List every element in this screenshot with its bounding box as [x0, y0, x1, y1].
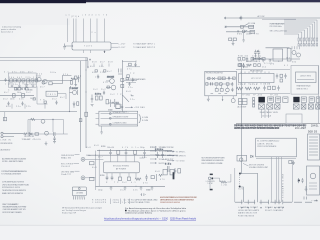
svg-text:100n: 100n — [10, 98, 15, 100]
rail top parts — [239, 63, 245, 68]
terminal strip box TB1 — [99, 111, 138, 126]
connector pin column — [253, 98, 255, 107]
left rail C — [95, 151, 97, 191]
label row 3 with stub — [61, 171, 80, 176]
junction — [95, 155, 96, 156]
IC package drawing U3 (power IC) — [72, 187, 86, 200]
branch capacitor C18 — [132, 78, 134, 82]
cap C8 — [4, 78, 6, 82]
output stub arrow 1 — [167, 151, 186, 153]
dark spec right column — [295, 125, 319, 133]
junction — [144, 155, 145, 156]
labels above parts — [107, 147, 139, 149]
junction — [15, 80, 16, 81]
svg-text:100p: 100p — [24, 84, 29, 86]
svg-text:6k8: 6k8 — [126, 91, 131, 93]
svg-text:33k: 33k — [142, 157, 147, 159]
svg-text:(P1)b: (P1)b — [71, 16, 79, 18]
fan wire 5 — [284, 28, 307, 38]
svg-text:EL CONTROL AMP/204-12: EL CONTROL AMP/204-12 — [257, 140, 279, 143]
selector lower wire — [240, 187, 244, 202]
svg-text:22k: 22k — [26, 77, 31, 79]
wire — [93, 63, 95, 66]
sub row C res2 — [220, 89, 223, 92]
cap row part c — [272, 86, 275, 89]
svg-text:SPEAKER LEFT +: SPEAKER LEFT + — [113, 111, 129, 114]
resistor R25 below — [128, 177, 131, 181]
svg-text:1N4148: 1N4148 — [146, 190, 151, 192]
node dot U1 in — [72, 45, 73, 46]
svg-text:22k: 22k — [133, 190, 138, 192]
U10 pins top — [241, 72, 269, 74]
svg-text:MUTING LINE: MUTING LINE — [159, 155, 173, 157]
transistor Q5 — [106, 85, 116, 90]
sub pin drop left — [207, 96, 209, 99]
svg-text:UNIT 4 INDUSTRIAL ESTATE ROAD: UNIT 4 INDUSTRIAL ESTATE ROAD — [2, 183, 30, 186]
svg-text:204 EL: 204 EL — [311, 125, 319, 127]
rail A series part — [79, 119, 82, 122]
bottom tick 1 — [241, 200, 243, 204]
svg-text:LM317 REG: LM317 REG — [300, 76, 312, 78]
resistor array row — [298, 38, 318, 41]
brace right of TB1 — [139, 115, 141, 123]
side vertical wire — [234, 168, 236, 202]
svg-text:J201 A-B: J201 A-B — [262, 115, 272, 118]
table separator a — [110, 199, 112, 204]
cap bar dark top — [210, 174, 213, 176]
mains terminal L — [224, 17, 225, 19]
transistor Q3 group — [70, 88, 79, 95]
bus vertical 3 — [278, 157, 280, 202]
svg-text:2k2: 2k2 — [122, 182, 127, 184]
second row part a — [238, 64, 241, 67]
svg-text:LAMP: LAMP — [246, 33, 253, 36]
ground G5 — [124, 186, 127, 190]
svg-text:2.2u: 2.2u — [130, 99, 135, 101]
electrolytic C30 — [254, 50, 258, 58]
svg-text:47k LOG: 47k LOG — [33, 139, 42, 141]
TB1 row 2 wire — [101, 117, 138, 119]
bottom tick 4 — [260, 200, 262, 204]
svg-text:PROTECTOR UNIT PCB: PROTECTOR UNIT PCB — [206, 73, 224, 75]
top row part b — [242, 58, 245, 61]
ground G10 — [269, 59, 272, 62]
TB1 row 1 terminal — [109, 113, 111, 115]
left rail D — [98, 151, 100, 187]
TB1 ground drop — [101, 126, 103, 132]
top row part d — [251, 58, 254, 61]
cap C6 — [54, 132, 56, 136]
output stub arrow 3 — [167, 160, 185, 162]
top scan bar left thick — [0, 0, 86, 3]
svg-text:AMPL 204 AS THAT SHOWN RARE-20: AMPL 204 AS THAT SHOWN RARE-204 — [234, 127, 280, 130]
sub row A res — [233, 77, 236, 79]
long node wire — [0, 111, 77, 113]
svg-text:47u: 47u — [12, 72, 17, 74]
psu mid wire — [266, 47, 290, 49]
ground G2 — [45, 142, 48, 146]
svg-text:ELECTRO AXIAL TYPES: ELECTRO AXIAL TYPES — [131, 201, 151, 204]
svg-text:MAINS SELECTOR: MAINS SELECTOR — [238, 212, 258, 215]
svg-text:47u: 47u — [103, 82, 108, 84]
transistor Q21 — [297, 53, 301, 57]
svg-text:508 03: 508 03 — [308, 129, 318, 133]
wire — [101, 63, 103, 66]
switch S2 diagonal — [244, 24, 248, 26]
switch note text — [202, 158, 226, 165]
svg-text:BC556: BC556 — [100, 175, 105, 177]
capacitor — [55, 101, 57, 105]
sp terminal marks — [304, 197, 307, 200]
cap row part d — [277, 86, 279, 91]
fan wire 2 — [284, 22, 315, 38]
stub to power amp board — [124, 80, 137, 82]
svg-text:20mA TYP: 20mA TYP — [61, 173, 72, 176]
svg-text:56k: 56k — [99, 66, 104, 68]
branch wire upper — [127, 66, 141, 68]
switch S1 — [244, 30, 248, 32]
svg-text:2.2u: 2.2u — [16, 106, 21, 108]
ground G4 — [110, 186, 113, 190]
cap C10 above — [109, 149, 112, 155]
bottom caption mid — [265, 206, 285, 212]
zobel caps right — [155, 149, 164, 158]
motor M1 — [208, 177, 211, 180]
table separator b — [119, 199, 121, 204]
stub row 1 — [150, 146, 174, 149]
svg-text:6k8: 6k8 — [94, 145, 99, 147]
brace label — [142, 117, 149, 122]
svg-text:PRINT. B2 INTERFACE: PRINT. B2 INTERFACE — [257, 145, 277, 148]
pin wires up from U2 — [111, 154, 145, 162]
bridge diode D21 — [259, 58, 261, 60]
svg-text:UPC1237: UPC1237 — [251, 78, 261, 80]
svg-text:470: 470 — [270, 64, 274, 66]
svg-text:CHECKED AGAINST UNIT S/N: CHECKED AGAINST UNIT S/N — [3, 208, 27, 211]
bus vertical 1 — [270, 157, 272, 202]
sub transistor Q11 — [226, 88, 230, 92]
relay coil box small — [286, 114, 302, 123]
bus drop arrow — [87, 61, 89, 67]
bottom long bus wire — [235, 201, 302, 203]
bridge diode D20 — [253, 58, 255, 60]
bias network parts — [42, 75, 72, 84]
svg-text:AF POWER: AF POWER — [116, 168, 127, 171]
wire out B — [111, 46, 118, 48]
RC cluster lower mid — [106, 99, 115, 107]
upper cluster parts — [113, 102, 124, 109]
svg-text:100n: 100n — [37, 76, 42, 78]
cap row part a — [263, 86, 265, 91]
mid parts between ICs — [276, 74, 287, 83]
svg-text:220u: 220u — [95, 94, 101, 96]
connector square row2-6 — [308, 104, 313, 109]
wire pin2 — [73, 19, 75, 43]
title block box — [256, 138, 297, 157]
cap C7 with ground — [53, 136, 56, 143]
wire — [24, 104, 26, 109]
footer text block left — [3, 203, 28, 214]
svg-text:2.2u: 2.2u — [13, 84, 18, 86]
fan wire 3 — [284, 24, 312, 38]
junction — [99, 150, 100, 151]
cap C9 — [16, 88, 18, 90]
pre-driver box — [116, 104, 120, 109]
switch unit small box — [237, 155, 247, 161]
connector square row1-5 black — [293, 97, 299, 103]
svg-text:4k7: 4k7 — [60, 97, 65, 99]
sub row B res2 — [226, 83, 229, 85]
sub row A box2 — [218, 77, 221, 80]
svg-text:REAR PANEL VIEW: REAR PANEL VIEW — [260, 111, 278, 114]
svg-text:-- 4: -- 4 — [311, 199, 318, 202]
svg-text:1k2: 1k2 — [262, 66, 266, 68]
resistor R26 zigzag — [135, 178, 141, 180]
series diode D30 — [251, 155, 253, 157]
input resistor R21 — [89, 177, 94, 180]
svg-text:TO GND: TO GND — [176, 160, 186, 162]
capacitor — [7, 102, 9, 106]
svg-text:TO MAIN AMP INPUT L: TO MAIN AMP INPUT L — [133, 42, 155, 45]
series box on rail B — [121, 84, 124, 87]
cap C16 right — [165, 164, 171, 173]
regulator REG1 box — [46, 91, 58, 96]
svg-text:REDRAWN FROM FACTORY PRINT: REDRAWN FROM FACTORY PRINT — [3, 206, 28, 209]
coupling box B — [170, 169, 174, 175]
transistor Q4 — [106, 77, 114, 84]
second row part b — [242, 64, 244, 68]
ground G1 — [63, 44, 73, 50]
diode D4 — [29, 133, 32, 136]
bottom tick 7 — [278, 200, 280, 204]
connector square row2-3 — [275, 104, 280, 109]
resistor R4 — [22, 79, 25, 82]
junction — [85, 91, 86, 92]
wire motor down — [209, 180, 211, 189]
svg-text:AC 120V: AC 120V — [258, 15, 266, 18]
diode D3 diag — [123, 95, 130, 102]
mains line L — [226, 17, 320, 19]
resistor — [44, 101, 46, 103]
bottom tick 6 — [274, 200, 276, 204]
ground G3 — [100, 132, 103, 134]
branch wire lower — [126, 82, 136, 84]
resistor R3 — [18, 79, 21, 82]
fan wire 7 — [284, 32, 302, 38]
second row part c zigzag — [247, 64, 252, 66]
zener cluster D2 — [73, 102, 79, 108]
wire — [11, 104, 13, 109]
svg-text:0.1: 0.1 — [284, 65, 288, 67]
filter left edge wire — [27, 120, 29, 135]
ground G11 — [305, 186, 308, 192]
cap C14 below — [111, 176, 114, 180]
svg-text:R106: R106 — [250, 84, 257, 86]
blue hyperlink — [104, 218, 196, 221]
ground G12 — [242, 40, 245, 42]
filter link wire a — [29, 120, 31, 135]
dark caption block — [125, 207, 187, 215]
IC U10 box — [239, 73, 274, 82]
svg-text:0.22: 0.22 — [113, 102, 119, 104]
stub row 4 — [150, 158, 174, 161]
right edge long vertical — [317, 66, 319, 124]
junction dot filter — [52, 119, 53, 120]
resistor — [33, 98, 35, 100]
bottom caption left — [238, 206, 260, 217]
pin wires down from U2 — [107, 173, 136, 179]
svg-text:AUX SELECT: AUX SELECT — [1, 148, 12, 151]
fuse F1 box — [249, 25, 254, 28]
svg-text:FROM SOURCE: FROM SOURCE — [1, 143, 14, 145]
svg-text:1k2: 1k2 — [93, 89, 98, 91]
resistor R9 — [21, 94, 24, 98]
svg-text:SPRINGFIELD 90210: SPRINGFIELD 90210 — [2, 187, 20, 189]
svg-text:RELAY DRIVE 24V: RELAY DRIVE 24V — [250, 70, 264, 73]
paper top-left shade — [0, 3, 70, 25]
svg-text:2k2: 2k2 — [52, 98, 57, 100]
part on line E — [250, 30, 255, 33]
svg-text:S2b: S2b — [238, 189, 243, 191]
svg-text:4k7: 4k7 — [40, 87, 45, 89]
svg-text:SUPPLY GND: SUPPLY GND — [159, 163, 172, 165]
svg-text:4k7: 4k7 — [98, 157, 103, 159]
wire pin3 — [75, 19, 77, 43]
svg-text:0.1: 0.1 — [131, 182, 136, 184]
mech link dot A — [239, 173, 241, 175]
connector P1 pin labels — [66, 15, 108, 18]
connector square row2-4 — [293, 104, 299, 109]
parts row y88 — [14, 88, 25, 91]
svg-text:COMMON GND: COMMON GND — [113, 123, 128, 125]
svg-text:47u: 47u — [127, 68, 132, 70]
driver transistor Q30 — [240, 158, 243, 161]
transistor Q1 — [37, 77, 41, 81]
top row part a — [238, 58, 241, 61]
bus wire lower — [0, 60, 87, 62]
svg-text:6k8: 6k8 — [31, 84, 36, 86]
driver rail vertical — [121, 60, 123, 112]
psu bottom wire — [252, 58, 300, 60]
capacitor — [128, 82, 130, 86]
resistor R23 above — [134, 150, 137, 154]
cap C1 drop — [11, 82, 13, 88]
svg-text:470: 470 — [143, 183, 148, 185]
lower rail wire — [0, 95, 34, 97]
wire — [44, 104, 46, 109]
fan wire 6 — [284, 30, 305, 38]
svg-text:R-OUT: R-OUT — [119, 47, 127, 49]
connector square row2-5 — [301, 104, 306, 109]
resistor R13 — [35, 79, 38, 82]
op-amp U1 box — [72, 42, 111, 50]
cap across mains line — [240, 16, 242, 20]
mains line N — [226, 26, 254, 28]
long right rail down — [241, 63, 243, 174]
svg-text:2.2u: 2.2u — [128, 87, 133, 89]
IC U11 box — [296, 72, 317, 83]
parts table row 2 — [92, 201, 150, 204]
svg-text:100u: 100u — [50, 72, 56, 74]
sub row B res — [215, 83, 218, 85]
coupling box A — [163, 169, 167, 175]
resistor R1 — [9, 79, 12, 82]
stub to supply label — [125, 106, 132, 108]
resistor R22 above — [117, 150, 120, 154]
cap C3 drop — [25, 82, 27, 88]
svg-text:100u/50: 100u/50 — [107, 147, 114, 149]
row labels small — [238, 84, 270, 86]
svg-text:22k: 22k — [26, 106, 31, 108]
wire reg out — [58, 94, 67, 99]
sub row A box3 — [222, 77, 225, 80]
svg-text:PRI 120V 60Hz: PRI 120V 60Hz — [270, 26, 282, 28]
driver top cap — [118, 69, 122, 75]
selector top wire — [240, 174, 258, 203]
TB1 row 3 terminal — [109, 123, 111, 125]
svg-text:22k: 22k — [19, 98, 24, 100]
resistor R2 — [14, 79, 17, 82]
top scan bar right segment — [200, 0, 320, 2]
svg-text:TO POWER AMP BOARD: TO POWER AMP BOARD — [128, 78, 147, 81]
filter link wire b — [52, 120, 54, 133]
svg-text:± W: ± W — [125, 202, 129, 204]
connector square row2-1 — [258, 104, 264, 109]
svg-text:TO VOLUME POT A: TO VOLUME POT A — [159, 150, 176, 153]
svg-text:TO MAIN AMP INPUT R: TO MAIN AMP INPUT R — [133, 46, 156, 49]
filter caps cluster — [297, 178, 303, 183]
resistor zigzag RB — [245, 87, 251, 90]
top supply wire — [97, 149, 172, 151]
feedback loop wire rectangle — [8, 73, 36, 87]
ground G7 — [151, 186, 154, 190]
input series box — [3, 117, 6, 120]
sub row C cap — [231, 88, 233, 92]
wire — [29, 82, 31, 85]
fan wire 1 — [284, 20, 317, 38]
ground G6 — [140, 186, 143, 190]
svg-text:C101 1u: C101 1u — [252, 55, 261, 57]
branch resistor R16 — [127, 75, 130, 78]
rail A vertical — [80, 61, 82, 152]
U10 pins bottom — [241, 83, 269, 85]
filter right vertical — [63, 120, 65, 135]
drop wire from lamp — [243, 33, 245, 40]
address text block top — [1, 170, 28, 176]
mech link dot B — [239, 186, 241, 188]
wire pin7 — [103, 19, 105, 43]
svg-text:4k7: 4k7 — [92, 72, 97, 74]
tick arrowheads row — [241, 207, 284, 208]
svg-text:4k7: 4k7 — [4, 92, 9, 94]
svg-text:PRI: PRI — [254, 34, 260, 36]
wire pin5 — [89, 19, 91, 43]
svg-text:TO BALANCE POT: TO BALANCE POT — [159, 158, 175, 161]
wire out A — [111, 43, 118, 45]
svg-text:TP GND: TP GND — [242, 94, 251, 96]
top rail wire — [88, 154, 178, 156]
svg-text:1k2: 1k2 — [110, 94, 115, 96]
fan wire 4 — [284, 26, 310, 38]
svg-text:22k: 22k — [100, 72, 105, 74]
resistor R11 — [24, 133, 28, 135]
svg-text:FUSE RATINGS: FUSE RATINGS — [238, 214, 255, 217]
cap bar dark bottom — [210, 189, 213, 191]
sub row B cap2 — [231, 82, 233, 86]
connector square row1-1 black — [258, 97, 265, 103]
svg-text:56k: 56k — [20, 72, 25, 74]
svg-text:BC547: BC547 — [72, 88, 78, 90]
